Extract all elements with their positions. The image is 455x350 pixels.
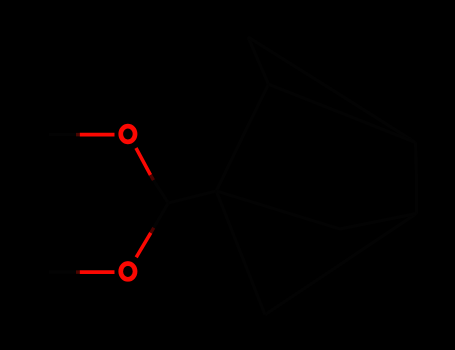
cage bond D-E right vertical edge — [416, 143, 417, 214]
atom O1 (top oxygen) — [121, 126, 135, 142]
wire: red half of O1-C1 bond — [136, 148, 151, 175]
wire: dark half of bottom methyl bond (CH3 side) — [49, 271, 76, 274]
wire: red half of O2-C1 bond — [136, 233, 151, 257]
cage bond F2-peak CH2 — [248, 37, 269, 84]
cage bond E-V lower-right edge — [265, 214, 417, 315]
wire: fade of O2-C1 bond — [151, 228, 154, 233]
wire: fade-in of top methyl bond — [76, 133, 80, 137]
wire: dark half of O1-C1 bond — [154, 180, 169, 203]
cage bond A-F2 via CH2 — [216, 84, 268, 191]
cage bridge peak-D — [248, 37, 416, 143]
wire: dark half of O2-C1 bond — [154, 203, 169, 228]
wire: red half of bottom methyl bond to O2 — [80, 270, 115, 274]
wire: red half of top methyl bond to O1 — [80, 133, 115, 137]
wire: acetal C1 to cage bridgehead A — [168, 191, 216, 203]
cage bond V-A lower-left edge — [216, 191, 265, 315]
atom O2 (bottom oxygen) — [121, 264, 135, 280]
cage inner bond A-ctr-E — [216, 191, 416, 229]
wire: dark half of top methyl bond (CH3 side) — [49, 133, 76, 136]
wire: fade-in of bottom methyl bond — [76, 270, 80, 274]
cage bond F2-D upper-right edge — [269, 84, 416, 142]
wire: fade of O1-C1 bond — [151, 175, 154, 180]
